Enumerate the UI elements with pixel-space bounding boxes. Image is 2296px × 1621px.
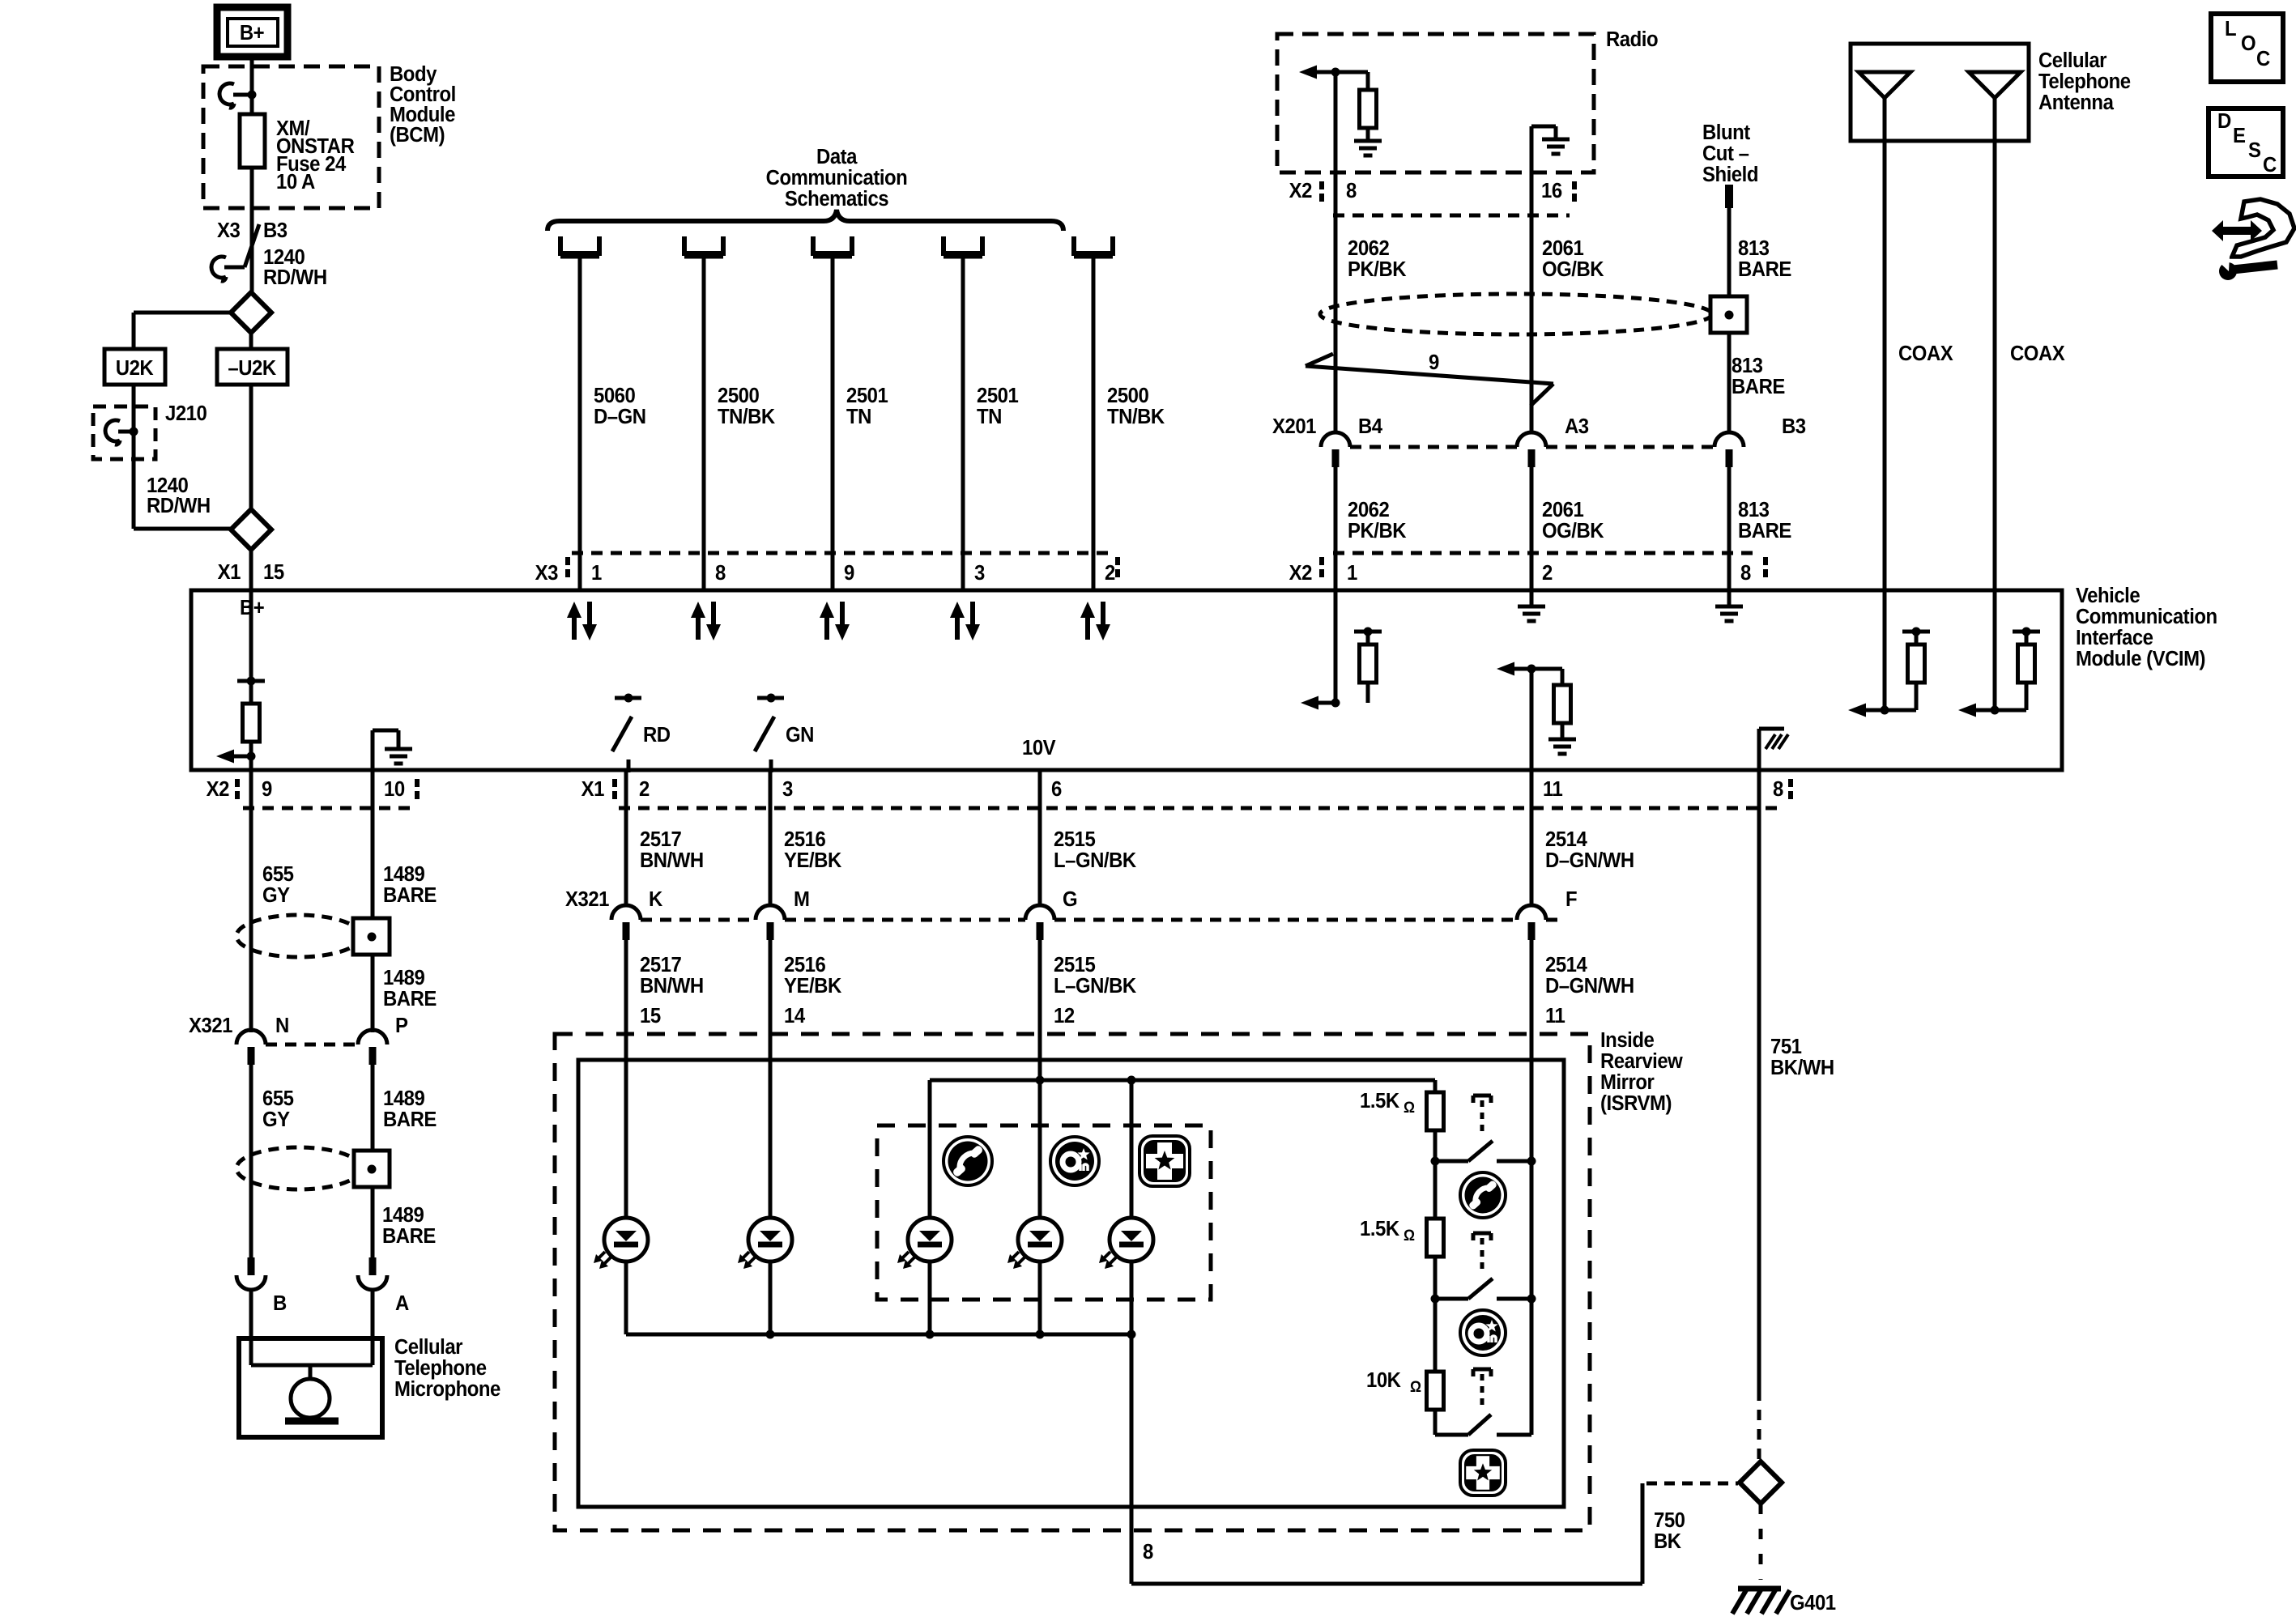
svg-text:(ISRVM): (ISRVM) — [1600, 1091, 1672, 1115]
svg-text:8: 8 — [1346, 179, 1357, 202]
svg-text:BARE: BARE — [383, 883, 437, 907]
svg-text:8: 8 — [715, 561, 726, 585]
svg-text:Cellular: Cellular — [2038, 49, 2107, 72]
svg-text:2517: 2517 — [640, 828, 681, 851]
svg-text:2501: 2501 — [977, 384, 1019, 407]
svg-text:11: 11 — [1545, 1004, 1565, 1027]
svg-text:813: 813 — [1732, 354, 1763, 377]
svg-text:X1: X1 — [218, 560, 241, 584]
svg-text:Module (VCIM): Module (VCIM) — [2076, 647, 2205, 670]
svg-text:14: 14 — [784, 1004, 805, 1027]
svg-text:X2: X2 — [207, 777, 229, 801]
svg-text:Ω: Ω — [1404, 1226, 1415, 1244]
svg-text:B+: B+ — [240, 21, 264, 45]
svg-text:2: 2 — [1542, 561, 1553, 585]
svg-text:Rearview: Rearview — [1600, 1049, 1683, 1073]
svg-text:2514: 2514 — [1545, 828, 1587, 851]
svg-text:RD/WH: RD/WH — [147, 494, 211, 517]
svg-text:Cut –: Cut – — [1702, 142, 1749, 165]
svg-text:9: 9 — [262, 777, 272, 801]
svg-text:Cellular: Cellular — [394, 1335, 463, 1359]
svg-text:Inside: Inside — [1600, 1028, 1655, 1052]
svg-text:X201: X201 — [1272, 415, 1317, 438]
svg-text:–U2K: –U2K — [228, 356, 276, 380]
svg-text:Vehicle: Vehicle — [2076, 584, 2141, 607]
svg-text:2501: 2501 — [846, 384, 888, 407]
svg-text:A3: A3 — [1565, 415, 1589, 438]
svg-text:M: M — [794, 887, 809, 911]
svg-text:BN/WH: BN/WH — [640, 974, 704, 998]
svg-text:YE/BK: YE/BK — [784, 849, 841, 872]
svg-text:G401: G401 — [1790, 1591, 1836, 1615]
svg-text:10V: 10V — [1022, 736, 1056, 759]
svg-text:10K: 10K — [1366, 1368, 1401, 1392]
svg-text:OG/BK: OG/BK — [1542, 519, 1604, 542]
svg-text:5060: 5060 — [594, 384, 635, 407]
svg-text:10: 10 — [384, 777, 405, 801]
svg-text:PK/BK: PK/BK — [1348, 257, 1407, 281]
svg-text:BK: BK — [1654, 1530, 1681, 1553]
svg-text:BARE: BARE — [383, 987, 437, 1010]
svg-text:2500: 2500 — [718, 384, 759, 407]
svg-text:1489: 1489 — [383, 966, 424, 989]
svg-text:BARE: BARE — [1738, 519, 1791, 542]
svg-text:BK/WH: BK/WH — [1770, 1056, 1834, 1079]
svg-text:6: 6 — [1051, 777, 1062, 801]
svg-text:3: 3 — [974, 561, 985, 585]
svg-text:G: G — [1063, 887, 1077, 911]
svg-text:1: 1 — [591, 561, 602, 585]
svg-text:1489: 1489 — [383, 1087, 424, 1110]
svg-text:BARE: BARE — [383, 1108, 437, 1131]
svg-text:TN: TN — [846, 405, 871, 428]
svg-text:D–GN: D–GN — [594, 405, 646, 428]
svg-text:U2K: U2K — [116, 356, 154, 380]
svg-text:9: 9 — [1429, 351, 1439, 374]
svg-text:K: K — [649, 887, 662, 911]
svg-text:15: 15 — [640, 1004, 661, 1027]
svg-text:O: O — [2241, 32, 2256, 55]
svg-text:2514: 2514 — [1545, 953, 1587, 976]
svg-text:8: 8 — [1740, 561, 1751, 585]
svg-text:1.5K: 1.5K — [1360, 1217, 1399, 1240]
svg-text:Radio: Radio — [1606, 28, 1658, 51]
svg-text:Interface: Interface — [2076, 626, 2153, 649]
svg-text:L–GN/BK: L–GN/BK — [1054, 849, 1136, 872]
svg-text:2515: 2515 — [1054, 828, 1096, 851]
svg-text:2: 2 — [1105, 561, 1115, 585]
svg-text:Telephone: Telephone — [2038, 70, 2131, 93]
svg-text:S: S — [2248, 138, 2260, 162]
svg-text:C: C — [2263, 153, 2277, 177]
svg-text:BN/WH: BN/WH — [640, 849, 704, 872]
svg-text:X1: X1 — [581, 777, 605, 801]
svg-text:B: B — [273, 1291, 287, 1315]
svg-text:1: 1 — [1347, 561, 1357, 585]
svg-text:B3: B3 — [1782, 415, 1806, 438]
svg-text:X321: X321 — [189, 1014, 233, 1037]
svg-text:16: 16 — [1541, 179, 1562, 202]
svg-text:750: 750 — [1654, 1508, 1685, 1532]
svg-text:3: 3 — [782, 777, 793, 801]
svg-text:2061: 2061 — [1542, 498, 1584, 521]
svg-text:9: 9 — [844, 561, 854, 585]
svg-text:1.5K: 1.5K — [1360, 1089, 1399, 1113]
svg-text:GY: GY — [262, 1108, 290, 1131]
svg-text:P: P — [395, 1014, 407, 1037]
svg-text:RD/WH: RD/WH — [263, 266, 327, 289]
svg-text:12: 12 — [1054, 1004, 1075, 1027]
svg-text:813: 813 — [1738, 498, 1770, 521]
svg-text:Schematics: Schematics — [785, 187, 888, 211]
svg-text:BARE: BARE — [1732, 375, 1785, 398]
svg-text:X3: X3 — [535, 561, 558, 585]
svg-text:Microphone: Microphone — [394, 1377, 501, 1401]
svg-text:2062: 2062 — [1348, 236, 1389, 260]
svg-text:B3: B3 — [263, 219, 288, 242]
svg-text:GN: GN — [786, 723, 814, 747]
svg-text:8: 8 — [1143, 1540, 1153, 1564]
svg-text:Communication: Communication — [766, 166, 908, 189]
svg-text:C: C — [2256, 47, 2270, 70]
svg-text:X3: X3 — [217, 219, 240, 242]
svg-text:751: 751 — [1770, 1035, 1802, 1058]
svg-text:PK/BK: PK/BK — [1348, 519, 1407, 542]
svg-text:11: 11 — [1543, 777, 1563, 801]
svg-text:RD: RD — [643, 723, 671, 747]
svg-text:X2: X2 — [1289, 179, 1312, 202]
svg-text:2516: 2516 — [784, 953, 825, 976]
svg-text:Blunt: Blunt — [1702, 121, 1751, 144]
svg-text:2061: 2061 — [1542, 236, 1584, 260]
svg-text:1489: 1489 — [382, 1203, 424, 1227]
svg-text:COAX: COAX — [2010, 342, 2065, 365]
svg-text:E: E — [2233, 124, 2245, 147]
svg-text:(BCM): (BCM) — [390, 123, 445, 147]
svg-text:COAX: COAX — [1898, 342, 1953, 365]
svg-text:X2: X2 — [1289, 561, 1312, 585]
svg-text:L–GN/BK: L–GN/BK — [1054, 974, 1136, 998]
svg-text:D–GN/WH: D–GN/WH — [1545, 974, 1634, 998]
svg-text:BARE: BARE — [382, 1224, 436, 1248]
svg-text:Ω: Ω — [1404, 1098, 1415, 1116]
svg-text:2517: 2517 — [640, 953, 681, 976]
svg-text:8: 8 — [1773, 777, 1783, 801]
svg-text:TN: TN — [977, 405, 1002, 428]
svg-text:L: L — [2225, 17, 2236, 40]
svg-text:813: 813 — [1738, 236, 1770, 260]
svg-text:B4: B4 — [1358, 415, 1382, 438]
svg-text:Telephone: Telephone — [394, 1356, 487, 1380]
svg-text:F: F — [1565, 887, 1577, 911]
svg-text:TN/BK: TN/BK — [718, 405, 775, 428]
svg-text:D: D — [2217, 109, 2231, 133]
svg-text:2062: 2062 — [1348, 498, 1389, 521]
svg-text:Antenna: Antenna — [2038, 91, 2115, 114]
svg-text:655: 655 — [262, 1087, 294, 1110]
svg-text:X321: X321 — [565, 887, 610, 911]
svg-text:2515: 2515 — [1054, 953, 1096, 976]
svg-text:Shield: Shield — [1702, 163, 1758, 186]
svg-text:Ω: Ω — [1410, 1377, 1421, 1395]
svg-text:2516: 2516 — [784, 828, 825, 851]
svg-text:15: 15 — [263, 560, 284, 584]
svg-text:1489: 1489 — [383, 862, 424, 886]
svg-text:655: 655 — [262, 862, 294, 886]
svg-text:OG/BK: OG/BK — [1542, 257, 1604, 281]
svg-text:GY: GY — [262, 883, 290, 907]
svg-text:Mirror: Mirror — [1600, 1070, 1655, 1094]
svg-text:D–GN/WH: D–GN/WH — [1545, 849, 1634, 872]
svg-text:N: N — [275, 1014, 289, 1037]
svg-text:YE/BK: YE/BK — [784, 974, 841, 998]
svg-text:2: 2 — [639, 777, 650, 801]
svg-text:Data: Data — [816, 145, 858, 168]
svg-text:TN/BK: TN/BK — [1107, 405, 1165, 428]
svg-text:10 A: 10 A — [276, 170, 315, 194]
svg-text:A: A — [395, 1291, 409, 1315]
svg-text:Communication: Communication — [2076, 605, 2217, 628]
svg-text:BARE: BARE — [1738, 257, 1791, 281]
svg-text:J210: J210 — [165, 402, 207, 425]
svg-text:2500: 2500 — [1107, 384, 1148, 407]
